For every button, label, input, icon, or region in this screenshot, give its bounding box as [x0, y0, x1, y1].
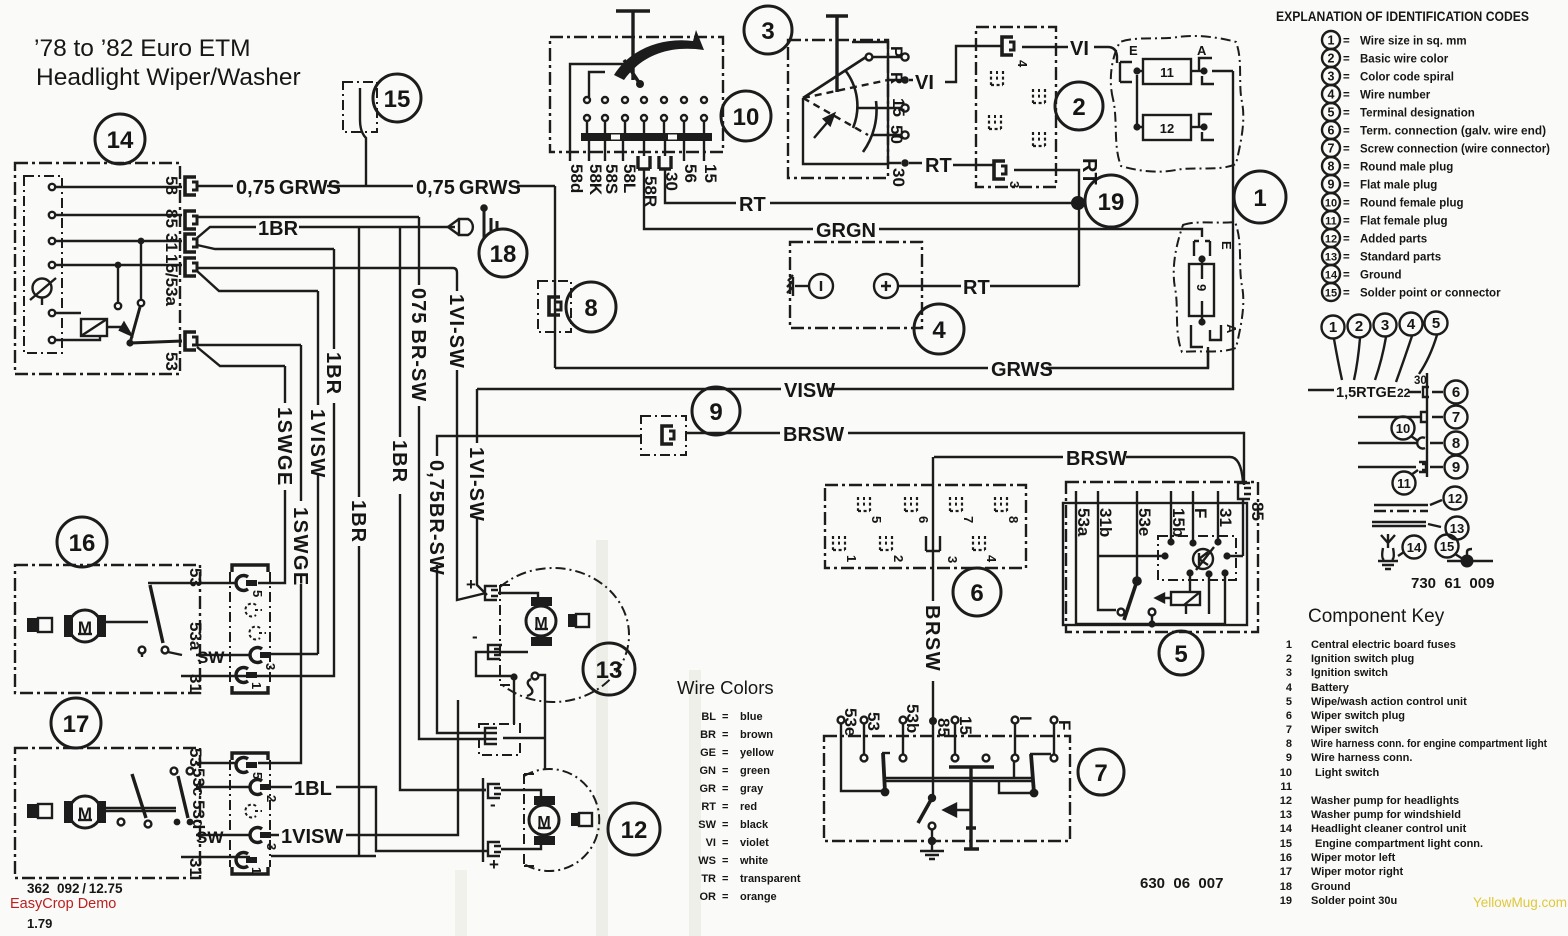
component circle 7: [1078, 749, 1124, 795]
svg-text:5: 5: [1174, 641, 1187, 668]
svg-text:4: 4: [1015, 60, 1030, 68]
svg-text:11: 11: [1160, 65, 1174, 80]
wire harness conn 8 (box): [538, 281, 571, 332]
svg-text:VI: VI: [1070, 38, 1089, 60]
svg-text:19: 19: [1280, 895, 1292, 907]
internal wires of 12: [483, 778, 541, 862]
svg-text:RT: RT: [1078, 158, 1100, 185]
svg-text:black: black: [740, 819, 769, 831]
svg-text:13: 13: [1450, 521, 1464, 536]
svg-text:BRSW: BRSW: [783, 424, 844, 446]
svg-text:+: +: [489, 855, 499, 874]
svg-text:+: +: [466, 575, 476, 594]
svg-text:1.79: 1.79: [27, 916, 52, 931]
svg-text:9: 9: [709, 399, 722, 426]
internal wiring of 10: [570, 64, 707, 152]
svg-text:2: 2: [1355, 318, 1363, 335]
wire 53 branch to 1SWGE riser 2: [197, 347, 285, 366]
svg-text:4: 4: [984, 555, 999, 563]
wiper switch plug 6 (box): [825, 485, 1026, 568]
svg-text:GRWS: GRWS: [991, 359, 1053, 381]
svg-text:RT: RT: [963, 277, 990, 299]
svg-text:5: 5: [1328, 106, 1335, 120]
svg-text:53d: 53d: [189, 800, 208, 829]
sample wire identification diagram: [1308, 312, 1494, 593]
solder point 19: [1071, 196, 1085, 210]
svg-text:Round male plug: Round male plug: [1360, 162, 1453, 174]
svg-text:85: 85: [934, 718, 953, 737]
plus terminal of 13: [466, 575, 498, 600]
svg-text:3: 3: [264, 843, 279, 850]
coil of 5: [1156, 592, 1200, 614]
svg-text:Wiper switch: Wiper switch: [1311, 724, 1379, 736]
sockets row 2 of 6: [833, 536, 999, 563]
wire 1BR from terminal 31 to ground 18: [197, 227, 455, 238]
svg-text:EasyCrop Demo: EasyCrop Demo: [10, 896, 116, 912]
svg-text:1: 1: [249, 682, 264, 689]
engine compartment light conn 15b (box): [479, 724, 520, 755]
left blade of 7: [882, 753, 890, 792]
wire 31 branch to 1BR riser: [197, 245, 334, 249]
svg-text:58: 58: [162, 176, 181, 195]
svg-text:Wire Colors: Wire Colors: [677, 677, 774, 698]
svg-text:5: 5: [250, 590, 265, 597]
svg-text:075 BR-SW: 075 BR-SW: [407, 288, 429, 402]
svg-text:15: 15: [1325, 288, 1337, 300]
svg-text:Standard parts: Standard parts: [1360, 252, 1441, 264]
svg-text:=: =: [722, 729, 728, 741]
wire 15/53a to 1VI-SW riser: [197, 268, 457, 273]
svg-text:E: E: [1219, 241, 1234, 250]
wire 1BL: [271, 787, 488, 856]
switch fan of 3: [803, 53, 909, 163]
svg-text:7: 7: [1094, 760, 1107, 787]
svg-text:Solder point or connector: Solder point or connector: [1360, 288, 1501, 300]
fuse 9: [1189, 241, 1239, 368]
svg-text:VI: VI: [915, 72, 934, 94]
svg-text:=: =: [722, 801, 728, 813]
svg-text:31: 31: [186, 858, 205, 877]
component circle 4: [914, 304, 964, 354]
terminal stubs of 5: [1076, 491, 1243, 624]
svg-text:15: 15: [889, 98, 908, 117]
svg-text:-: -: [472, 627, 478, 646]
terminal 85 bracket of 5: [1238, 483, 1267, 521]
pin 3 of 2: [994, 161, 1022, 188]
svg-text:11: 11: [1325, 216, 1337, 228]
svg-text:Headlight cleaner control unit: Headlight cleaner control unit: [1311, 823, 1467, 835]
svg-text:53c: 53c: [189, 768, 208, 796]
washer pump for windshield 13 (outline): [500, 568, 629, 702]
svg-text:14: 14: [1325, 270, 1338, 282]
svg-text:58S: 58S: [602, 164, 621, 194]
svg-text:blue: blue: [740, 711, 763, 723]
svg-text:11: 11: [1280, 781, 1292, 793]
svg-text:7: 7: [1452, 409, 1460, 426]
svg-text:yellow: yellow: [740, 747, 774, 759]
svg-text:=: =: [722, 819, 728, 831]
svg-text:GRGN: GRGN: [816, 220, 876, 242]
wiper switch 7 (box): [824, 736, 1070, 841]
wires 17 to plug: [181, 763, 251, 857]
svg-text:Washer pump for windshield: Washer pump for windshield: [1311, 809, 1461, 821]
svg-text:16: 16: [69, 530, 96, 557]
sockets of 2: [991, 71, 1003, 85]
svg-text:Washer pump for headlights: Washer pump for headlights: [1311, 795, 1459, 807]
svg-text:10: 10: [1396, 421, 1410, 436]
svg-text:15: 15: [956, 716, 975, 735]
svg-text:16: 16: [1280, 852, 1292, 864]
svg-text:TR: TR: [701, 873, 716, 885]
switch blade of 5: [1124, 577, 1141, 620]
svg-text:1VI-SW: 1VI-SW: [445, 294, 467, 369]
svg-text:Screw connection (wire connect: Screw connection (wire connector): [1360, 144, 1550, 156]
svg-text:Wiper switch plug: Wiper switch plug: [1311, 710, 1405, 722]
svg-text:Ground: Ground: [1360, 270, 1402, 282]
wire 85 of 14 to riser: [197, 216, 419, 218]
svg-text:5: 5: [869, 516, 884, 523]
svg-text:SW: SW: [698, 819, 716, 831]
wire harness conn 9 (box): [641, 416, 686, 455]
svg-text:brown: brown: [740, 729, 773, 741]
svg-text:Engine compartment light conn.: Engine compartment light conn.: [1315, 838, 1483, 850]
component circle 3: [744, 6, 792, 54]
component circle 16: [57, 517, 107, 567]
svg-text:=: =: [1343, 162, 1350, 174]
svg-text:0,75BR-SW: 0,75BR-SW: [425, 460, 447, 576]
svg-text:VI: VI: [706, 837, 716, 849]
svg-text:13: 13: [1325, 252, 1337, 264]
riser 1SWGE left: [258, 366, 285, 583]
svg-text:Term. connection (galv. wire e: Term. connection (galv. wire end): [1360, 126, 1546, 138]
svg-text:OR: OR: [700, 891, 717, 903]
female connector 58R: [638, 156, 650, 169]
internal wires of 5: [1098, 556, 1243, 624]
svg-text:Solder point 30u: Solder point 30u: [1311, 895, 1397, 907]
svg-text:7: 7: [961, 516, 976, 523]
svg-text:0,75 GRWS: 0,75 GRWS: [416, 177, 521, 199]
svg-text:Basic wire color: Basic wire color: [1360, 54, 1449, 66]
svg-text:15: 15: [384, 86, 411, 113]
internal wires of 13: [476, 593, 538, 676]
linkage bar of 7: [885, 778, 1033, 781]
svg-text:=: =: [722, 747, 728, 759]
svg-text:A: A: [1224, 324, 1239, 334]
svg-text:30: 30: [889, 168, 908, 187]
wire VI to fuse box: [1022, 47, 1117, 63]
svg-text:14: 14: [107, 127, 134, 154]
svg-text:2: 2: [1328, 52, 1335, 66]
svg-text:=: =: [1343, 108, 1350, 120]
component circle 14: [95, 114, 145, 164]
svg-text:8: 8: [1006, 516, 1021, 523]
terminal 15/53a of 14: [185, 258, 197, 276]
svg-text:1BR: 1BR: [347, 500, 369, 543]
svg-text:53: 53: [186, 568, 205, 587]
motor M of 12: [529, 796, 592, 845]
svg-text:Ground: Ground: [1311, 881, 1351, 893]
svg-text:Central electric board fuses: Central electric board fuses: [1311, 639, 1456, 651]
svg-text:58L: 58L: [620, 164, 639, 193]
svg-text:=: =: [1343, 270, 1350, 282]
svg-text:53: 53: [162, 352, 181, 371]
riser 1BR c: [400, 227, 486, 790]
svg-text:BL: BL: [701, 711, 716, 723]
svg-text:Wiper motor right: Wiper motor right: [1311, 866, 1404, 878]
svg-text:=: =: [1343, 180, 1350, 192]
svg-text:12: 12: [1448, 491, 1462, 506]
svg-text:56: 56: [681, 164, 700, 183]
ground 18 symbol: [448, 205, 497, 238]
svg-text:WS: WS: [698, 855, 716, 867]
switch of 17: [106, 768, 193, 828]
wire BRSW riser to wiper switch: [932, 457, 934, 721]
terminal 53 of 14: [185, 332, 197, 350]
svg-text:53e: 53e: [1135, 508, 1154, 536]
svg-text:1,5RTGE: 1,5RTGE: [1336, 385, 1397, 401]
svg-text:=: =: [1343, 198, 1350, 210]
svg-text:=: =: [1343, 90, 1350, 102]
svg-text:1: 1: [844, 555, 859, 562]
svg-text:1: 1: [1253, 185, 1266, 212]
component circle 13: [583, 643, 635, 695]
wire 15/53a branch to 1VISW riser: [197, 271, 318, 291]
svg-text:5: 5: [1286, 696, 1292, 708]
component circle 2: [1055, 82, 1103, 130]
svg-text:53: 53: [186, 748, 205, 767]
switch of 13: [514, 673, 538, 724]
component circle 19: [1085, 175, 1137, 227]
component circle 18: [479, 229, 527, 277]
switch of 16: [106, 583, 196, 657]
svg-text:=: =: [722, 711, 728, 723]
wire GRWS horizontal: [555, 350, 1208, 368]
inner frame of 3: [803, 42, 888, 164]
svg-text:BRSW: BRSW: [921, 605, 943, 672]
terminals of 7: [838, 717, 1058, 791]
svg-text:Flat male plug: Flat male plug: [1360, 180, 1437, 192]
motor M of 17: [27, 796, 106, 828]
motor M of 16: [27, 610, 106, 642]
svg-text:15: 15: [1280, 838, 1292, 850]
svg-text:=: =: [1343, 72, 1350, 84]
svg-text:gray: gray: [740, 783, 764, 795]
light switch 10 (box): [550, 37, 723, 152]
svg-text:E: E: [1129, 43, 1138, 58]
wire 0,75 GRWS riser through conn 8: [554, 186, 556, 368]
svg-text:18: 18: [1280, 881, 1292, 893]
svg-text:GE: GE: [700, 747, 716, 759]
svg-text:Wire harness conn.: Wire harness conn.: [1311, 752, 1412, 764]
svg-text:1: 1: [1329, 319, 1337, 336]
svg-text:violet: violet: [740, 837, 769, 849]
svg-text:Wipe/wash action control unit: Wipe/wash action control unit: [1311, 696, 1467, 708]
ignition switch plug 2 (box): [976, 27, 1056, 187]
svg-text:Flat female plug: Flat female plug: [1360, 216, 1448, 228]
minus terminal of 12: [488, 784, 501, 814]
svg-text:362 092 / 12.75: 362 092 / 12.75: [27, 881, 123, 896]
svg-text:GN: GN: [700, 765, 717, 777]
component circle 1: [1234, 171, 1286, 223]
svg-text:9: 9: [1328, 178, 1335, 192]
svg-text:5: 5: [1432, 315, 1440, 332]
svg-text:transparent: transparent: [740, 873, 801, 885]
svg-text:10: 10: [1325, 198, 1337, 210]
center blade of 7: [918, 721, 935, 841]
svg-text:7: 7: [1328, 142, 1335, 156]
svg-text:11: 11: [1397, 476, 1411, 491]
svg-text:85: 85: [162, 209, 181, 228]
svg-text:4: 4: [1286, 682, 1293, 694]
svg-text:14: 14: [1280, 823, 1293, 835]
wire GRGN: [644, 169, 1202, 237]
riser 1BR b: [358, 227, 360, 855]
svg-text:6: 6: [1286, 710, 1292, 722]
svg-text:F: F: [1055, 720, 1074, 730]
terminal stems of 10: [570, 141, 704, 161]
right blade of 7: [999, 754, 1051, 793]
svg-text:53e: 53e: [841, 708, 860, 736]
motor M of 13: [526, 597, 589, 646]
svg-text:=: =: [722, 765, 728, 777]
svg-text:BRSW: BRSW: [1066, 448, 1127, 470]
wiper motor plug 17: [230, 753, 279, 874]
svg-text:3: 3: [945, 556, 960, 563]
svg-text:VISW: VISW: [784, 380, 835, 402]
svg-text:Wire size in sq. mm: Wire size in sq. mm: [1360, 36, 1467, 48]
svg-text:53: 53: [864, 712, 883, 731]
svg-text:Color code spiral: Color code spiral: [1360, 72, 1454, 84]
wires 16 to plug: [181, 583, 318, 676]
svg-text:18: 18: [490, 241, 517, 268]
svg-text:1VISW: 1VISW: [306, 409, 328, 479]
svg-text:GR: GR: [700, 783, 717, 795]
svg-text:10: 10: [1280, 767, 1292, 779]
svg-text:10: 10: [733, 104, 760, 131]
component circle 17: [51, 698, 101, 748]
minus terminal of 13: [472, 627, 502, 659]
wire from conn 15b to pump 13 switch: [520, 675, 545, 770]
central electric board fuses 1 (upper blob): [1111, 36, 1244, 172]
svg-text:Battery: Battery: [1311, 682, 1350, 694]
riser 1BR a: [257, 249, 334, 676]
svg-text:=: =: [1343, 144, 1350, 156]
fuse 11: [1120, 43, 1233, 84]
svg-text:=: =: [1343, 234, 1350, 246]
svg-text:4: 4: [1407, 316, 1416, 333]
svg-text:15: 15: [1440, 539, 1454, 554]
svg-text:3: 3: [1328, 70, 1335, 84]
wiper motor plug 16: [230, 565, 278, 693]
svg-text:1VI-SW: 1VI-SW: [465, 447, 487, 522]
svg-text:2: 2: [1072, 94, 1085, 121]
svg-text:R: R: [887, 72, 906, 84]
svg-text:1BL: 1BL: [294, 778, 332, 800]
svg-text:=: =: [722, 855, 728, 867]
svg-text:Light switch: Light switch: [1315, 767, 1379, 779]
headlight cleaner control unit 14 (box): [15, 163, 180, 374]
svg-text:53a: 53a: [186, 622, 205, 651]
svg-text:red: red: [740, 801, 757, 813]
wire VISW: [477, 71, 1233, 389]
component circle 8: [566, 282, 616, 332]
svg-text:Ignition switch plug: Ignition switch plug: [1311, 653, 1414, 665]
svg-text:17: 17: [63, 711, 90, 738]
svg-text:Round female plug: Round female plug: [1360, 198, 1464, 210]
wire 53 to 1SWGE riser: [197, 344, 301, 346]
svg-text:14: 14: [1407, 540, 1422, 555]
svg-text:6: 6: [916, 516, 931, 523]
fuse 9 blob: [1174, 222, 1244, 352]
svg-text:31b: 31b: [1096, 508, 1115, 537]
female connector 30: [659, 156, 671, 169]
wire RT from battery: [922, 285, 1079, 287]
bus bar of 10: [581, 133, 712, 141]
svg-text:I: I: [1016, 716, 1035, 721]
svg-text:1: 1: [1328, 34, 1335, 48]
svg-text:A: A: [1197, 43, 1207, 58]
svg-text:15: 15: [701, 164, 720, 183]
fuse 12: [1133, 75, 1214, 140]
svg-text:=: =: [1343, 36, 1350, 48]
battery 4 (box): [790, 242, 922, 328]
svg-text:SW: SW: [196, 828, 224, 847]
svg-text:Headlight Wiper/Washer: Headlight Wiper/Washer: [36, 64, 301, 91]
svg-text:15/53a: 15/53a: [162, 254, 181, 307]
wire 1VISW: [271, 700, 486, 835]
svg-text:0,75 GRWS: 0,75 GRWS: [236, 177, 341, 199]
terminal 85 of 14: [185, 211, 197, 229]
svg-text:1: 1: [1286, 639, 1292, 651]
riser 1SWGE right: [258, 345, 301, 763]
svg-text:white: white: [739, 855, 768, 867]
svg-text:30: 30: [1414, 375, 1427, 387]
svg-text:15b: 15b: [1169, 508, 1188, 537]
svg-text:19: 19: [1098, 189, 1125, 216]
svg-text:13: 13: [1280, 809, 1292, 821]
svg-text:8: 8: [584, 295, 597, 322]
svg-text:12: 12: [621, 817, 648, 844]
svg-text:Wiper motor left: Wiper motor left: [1311, 852, 1396, 864]
riser 1VI-SW b from VISW line: [477, 389, 487, 595]
wire VI from R terminal: [909, 46, 1001, 82]
sockets row 1 of 6: [858, 497, 1021, 523]
wire 0,75 GRWS from terminal 58: [197, 185, 555, 187]
svg-text:RT: RT: [739, 194, 766, 216]
component circle 6: [953, 568, 1001, 616]
svg-text:RT: RT: [701, 801, 716, 813]
svg-text:3: 3: [1007, 181, 1022, 188]
svg-text:50: 50: [887, 125, 906, 144]
svg-text:12: 12: [1280, 795, 1292, 807]
svg-text:Terminal designation: Terminal designation: [1360, 108, 1475, 120]
wiper motor left 16 (box): [15, 565, 200, 693]
svg-text:Added parts: Added parts: [1360, 234, 1427, 246]
svg-text:8: 8: [1328, 160, 1335, 174]
svg-text:12: 12: [1160, 121, 1174, 136]
svg-text:31: 31: [162, 233, 181, 252]
svg-text:1: 1: [249, 867, 264, 874]
pin 4 of 2: [1002, 37, 1030, 68]
wire BRSW from conn 9: [686, 433, 1244, 485]
svg-text:630 06 007: 630 06 007: [1140, 875, 1223, 892]
svg-text:17: 17: [1280, 866, 1292, 878]
svg-text:7: 7: [1286, 724, 1292, 736]
svg-text:YellowMug.com: YellowMug.com: [1473, 895, 1567, 910]
terminal 58 of 14: [185, 177, 197, 195]
svg-text:8: 8: [1286, 738, 1292, 750]
ignition switch 3 (box): [788, 40, 888, 178]
